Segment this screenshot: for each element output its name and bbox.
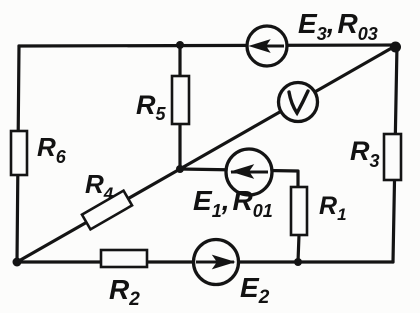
node top (R5 top junction): [176, 41, 184, 49]
wire diagonal to R4: [17, 169, 180, 262]
resistor R1: [291, 187, 307, 235]
resistor R5: [172, 76, 189, 124]
svg-text:R6: R6: [37, 132, 67, 167]
wire R5 branch: [178, 45, 181, 169]
wire right: [393, 45, 397, 262]
resistor R3: [384, 134, 401, 180]
wire top: [19, 45, 397, 46]
svg-text:R1: R1: [319, 192, 347, 224]
node top right: [390, 42, 401, 53]
voltmeter V: [279, 83, 318, 122]
svg-text:E3,R03: E3,R03: [298, 8, 378, 44]
source E1 with internal resistance R01: [226, 149, 272, 195]
svg-text:E2: E2: [240, 272, 270, 308]
resistor R2: [101, 250, 147, 267]
wire E1 branch: [180, 169, 298, 188]
wire R1 to bottom node: [298, 235, 299, 262]
node center: [176, 165, 184, 173]
resistor R6: [11, 131, 27, 175]
svg-text:R3: R3: [350, 136, 380, 171]
wire diagonal through voltmeter: [180, 45, 397, 169]
wire left: [17, 46, 19, 262]
source E2: [194, 240, 239, 285]
node bottom (R1 junction): [294, 258, 302, 266]
resistor R4: [82, 191, 132, 230]
svg-text:R2: R2: [109, 274, 140, 310]
svg-text:R4: R4: [85, 169, 114, 203]
node bottom left: [13, 258, 22, 267]
source E3 with internal resistance R03: [247, 26, 287, 66]
wire bottom: [17, 260, 393, 263]
svg-text:R5: R5: [136, 90, 167, 124]
